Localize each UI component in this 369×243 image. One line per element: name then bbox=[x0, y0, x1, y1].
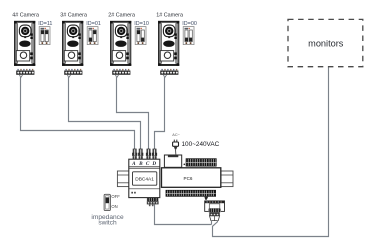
door camera 4# bbox=[14, 21, 35, 66]
monitors box bbox=[288, 19, 363, 66]
wire camera4 to terminal A bbox=[21, 77, 135, 150]
terminal C bbox=[146, 149, 151, 159]
wire DBC output to video connector bbox=[155, 204, 212, 224]
svg-text:4# Camera: 4# Camera bbox=[12, 13, 39, 19]
AC cord boot bbox=[174, 147, 178, 150]
AC plug body bbox=[173, 142, 179, 146]
door camera 2# bbox=[110, 21, 131, 66]
wire Y camera 2# bbox=[116, 75, 119, 78]
wire Y camera 1# bbox=[164, 75, 167, 78]
wire Y camera 4# bbox=[20, 75, 23, 78]
video connector wedge bbox=[204, 197, 208, 200]
svg-text:OFF: OFF bbox=[111, 194, 120, 199]
terminal block camera 4# bbox=[16, 69, 34, 75]
DIN rail left end bbox=[117, 171, 129, 187]
connector left wire bbox=[211, 221, 213, 225]
PC6 bottom terminal strip bbox=[166, 190, 216, 196]
svg-text:ID=11: ID=11 bbox=[38, 21, 52, 27]
svg-text:ID=00: ID=00 bbox=[182, 21, 197, 27]
svg-text:C: C bbox=[146, 161, 150, 167]
PC6 top terminal strip bbox=[186, 159, 216, 167]
PC6 module bbox=[162, 168, 221, 188]
svg-text:100~240VAC: 100~240VAC bbox=[182, 141, 220, 148]
terminal B bbox=[138, 149, 143, 159]
AC plug prongs bbox=[174, 140, 175, 143]
door camera 3# bbox=[62, 21, 83, 66]
connector boot bbox=[210, 216, 220, 221]
wire Y camera 3# bbox=[68, 75, 71, 78]
terminal block camera 3# bbox=[64, 69, 82, 75]
svg-text:PC6: PC6 bbox=[184, 176, 193, 181]
svg-text:A: A bbox=[131, 161, 136, 167]
AC cord bbox=[175, 149, 177, 155]
DBC4A1 name plate bbox=[133, 172, 157, 185]
DBC output terminal bbox=[147, 198, 159, 201]
DIN rail right end bbox=[221, 171, 233, 187]
DBC4A1 module bbox=[129, 159, 160, 197]
wire to monitors bbox=[213, 67, 329, 237]
svg-text:1# Camera: 1# Camera bbox=[156, 13, 183, 19]
wire camera1 to terminal D bbox=[155, 77, 165, 150]
PC6 power inlet bbox=[164, 155, 181, 167]
svg-text:DBC4A1: DBC4A1 bbox=[135, 176, 154, 182]
terminal A bbox=[132, 149, 137, 159]
dip switch camera 2# (ID=10) bbox=[135, 27, 146, 45]
door camera 1# bbox=[158, 21, 179, 66]
svg-text:ID=10: ID=10 bbox=[134, 21, 149, 27]
svg-text:monitors: monitors bbox=[308, 38, 344, 48]
svg-text:switch: switch bbox=[98, 220, 117, 227]
dip switch camera 3# (ID=01) bbox=[87, 27, 98, 45]
svg-text:3# Camera: 3# Camera bbox=[60, 13, 87, 19]
svg-text:ID=01: ID=01 bbox=[86, 21, 101, 27]
terminal block camera 1# bbox=[160, 69, 178, 75]
DBC4A1 bottom marks bbox=[131, 192, 133, 194]
dip switch camera 1# (ID=00) bbox=[183, 27, 194, 45]
wire camera3 to terminal B bbox=[69, 77, 141, 150]
impedance switch body bbox=[104, 194, 110, 210]
svg-text:ON: ON bbox=[111, 204, 117, 209]
svg-text:2# Camera: 2# Camera bbox=[108, 13, 135, 19]
wire camera2 to terminal C bbox=[117, 77, 149, 150]
svg-text:B: B bbox=[138, 161, 143, 167]
terminal block camera 2# bbox=[112, 69, 130, 75]
terminal D bbox=[152, 149, 157, 159]
small dot bbox=[184, 164, 186, 166]
dip switch camera 4# (ID=11) bbox=[39, 27, 50, 45]
svg-text:AC~: AC~ bbox=[172, 133, 180, 137]
svg-text:D: D bbox=[151, 161, 156, 167]
video connector body bbox=[205, 201, 225, 212]
